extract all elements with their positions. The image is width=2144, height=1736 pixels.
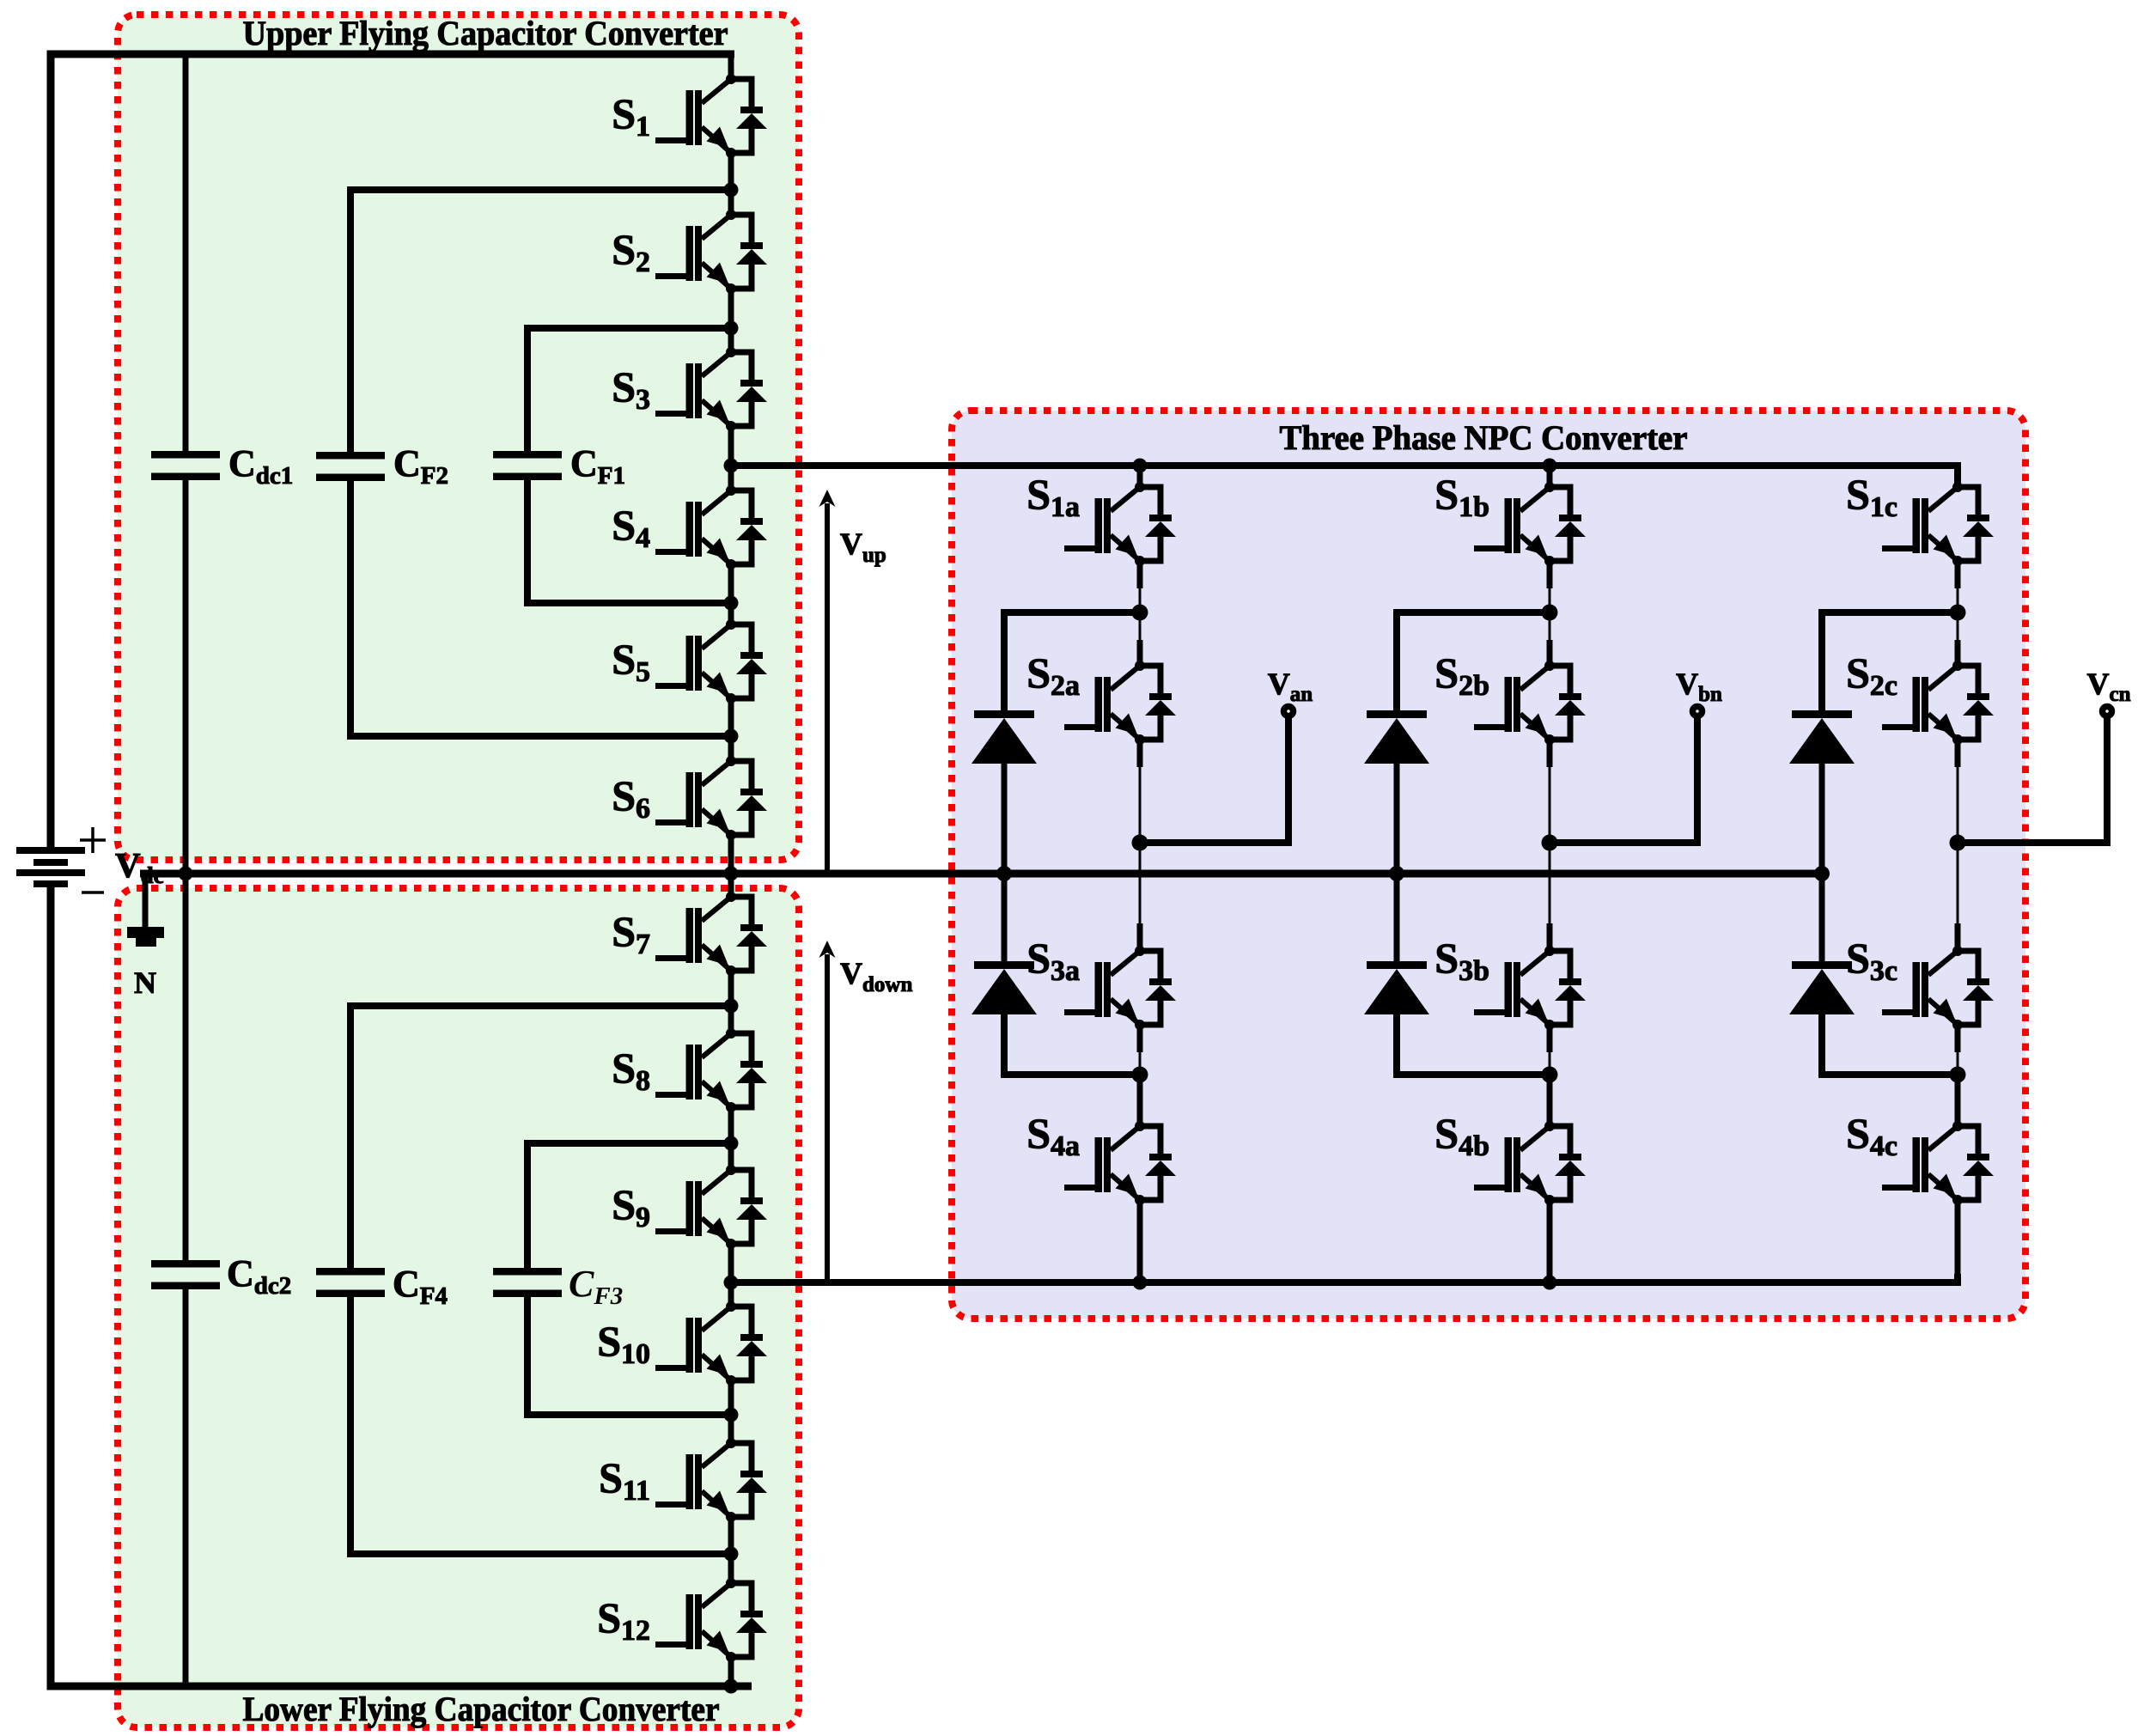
wire clamp mid-to-lower lead leg a — [1002, 874, 1008, 964]
wire stack link S6-S8 — [728, 835, 734, 897]
terminal Vcn — [2103, 707, 2112, 716]
wire stack link S1-S3 — [728, 153, 734, 215]
wire NPC leg b top link — [1547, 466, 1553, 487]
wire stack link S8-S10 — [728, 1107, 734, 1170]
terminal Vbn — [1693, 707, 1702, 716]
transistor S5 (IGBT with antiparallel diode) — [655, 619, 767, 704]
wire NPC leg a clamp-S4 link — [1137, 1075, 1143, 1126]
wire CF2 lower lead and bottom tap — [350, 481, 731, 736]
wire NPC leg a top link — [1137, 466, 1143, 487]
wire CF1 top tap and upper lead — [527, 328, 731, 451]
diode D2a (lower clamp) — [971, 961, 1037, 1014]
node clamp bottom leg b — [1542, 1067, 1558, 1083]
node clamp top leg c — [1950, 605, 1966, 621]
wire CF3 lower lead and bottom tap — [527, 1297, 731, 1415]
wire CF3 top tap and upper lead — [527, 1143, 731, 1268]
wire Cdc column middle lead — [183, 480, 189, 1260]
svg-text:Vup: Vup — [840, 527, 886, 567]
diode D1c (upper clamp) — [1789, 710, 1855, 764]
wire NPC leg c phase-S3 link — [1957, 843, 1959, 923]
node clamp top leg b — [1542, 605, 1558, 621]
wire clamp mid-to-lower lead leg c — [1819, 874, 1825, 964]
node CF3 bottom tap — [724, 1408, 739, 1422]
wire NPC leg c S1-clamp link — [1955, 561, 1961, 588]
transistor S2 (IGBT with antiparallel diode) — [655, 210, 767, 294]
diode D2c (lower clamp) — [1789, 961, 1855, 1014]
wire CF4 lower lead and bottom tap — [350, 1297, 731, 1554]
wire CF2 top tap and upper lead — [350, 190, 731, 452]
transistor S8 (IGBT with antiparallel diode) — [655, 1028, 767, 1112]
node CF4 bottom tap — [724, 1547, 739, 1562]
wire dc mid bus — [140, 870, 1822, 878]
transistor S3a (IGBT with antiparallel diode) — [1064, 946, 1176, 1030]
battery plus sign — [80, 827, 106, 853]
node phase leg b — [1542, 835, 1558, 851]
node CF3 top tap — [724, 1136, 739, 1151]
wire phase output and terminal riser leg a — [1140, 716, 1288, 843]
wire NPC leg c S3-clamp link — [1955, 1025, 1961, 1052]
ground symbol N — [127, 927, 164, 947]
battery minus sign — [82, 891, 104, 894]
region box: Upper Flying Capacitor Converter — [118, 15, 799, 860]
transistor S9 (IGBT with antiparallel diode) — [655, 1165, 767, 1249]
wire NPC leg a S3-clamp link — [1137, 1025, 1143, 1052]
transistor S4c (IGBT with antiparallel diode) — [1882, 1121, 1994, 1205]
node mid bus Cdc column — [179, 867, 193, 881]
diode D2b (lower clamp) — [1364, 961, 1429, 1014]
wire NPC leg b clamp-S2 link — [1549, 612, 1551, 640]
node phase leg c — [1950, 835, 1966, 851]
wire stack link S3-S5 — [728, 426, 734, 490]
wire NPC leg b clamp-S4 link — [1547, 1075, 1553, 1126]
node upper phase tap — [724, 459, 739, 473]
svg-text:Upper Flying Capacitor Convert: Upper Flying Capacitor Converter — [243, 14, 728, 52]
wire Cdc column upper lead — [183, 54, 189, 451]
transistor S1a (IGBT with antiparallel diode) — [1064, 482, 1176, 566]
node CF1 top tap — [724, 321, 739, 336]
capacitor CF3 — [493, 1268, 562, 1297]
terminal Van — [1284, 707, 1294, 716]
node stack mid bus — [724, 867, 739, 881]
wire clamp lower lead and bottom tap leg b — [1397, 1012, 1550, 1075]
wire stack link S2-S4 — [728, 289, 734, 352]
wire clamp upper-to-mid lead leg a — [1002, 761, 1008, 874]
wire stack bottom link — [728, 1657, 734, 1686]
wire NPC leg c S2-phase link — [1955, 740, 1961, 767]
capacitor CF2 — [316, 452, 385, 481]
node mid bus clamp leg c — [1814, 866, 1830, 881]
node lower phase tap — [724, 1276, 739, 1290]
capacitor Cdc2 — [151, 1260, 220, 1289]
battery Vdc cell plate short 2 — [33, 880, 68, 887]
region box: Lower Flying Capacitor Converter — [118, 888, 799, 1727]
wire stack link S9-S11 — [728, 1244, 734, 1307]
wire phase output and terminal riser leg c — [1958, 716, 2107, 843]
diode D1a (upper clamp) — [971, 710, 1037, 764]
transistor S10 (IGBT with antiparallel diode) — [655, 1301, 767, 1386]
capacitor CF4 — [316, 1268, 385, 1297]
svg-text:Three Phase NPC Converter: Three Phase NPC Converter — [1280, 418, 1688, 457]
wire NPC leg a S2-phase link — [1137, 740, 1143, 767]
wire NPC leg a S4-bottom link — [1137, 1200, 1143, 1282]
wire clamp top tap leg b — [1397, 612, 1550, 713]
wire NPC leg c clamp-S4 link — [1955, 1075, 1961, 1126]
transistor S1b (IGBT with antiparallel diode) — [1474, 482, 1586, 566]
battery Vdc cell plate long 2 — [16, 869, 85, 876]
battery Vdc cell plate short 1 — [33, 859, 68, 866]
wire CF1 lower lead and bottom tap — [527, 480, 731, 603]
wire NPC leg a clamp-S2 link — [1139, 612, 1142, 640]
diode D1b (upper clamp) — [1364, 710, 1429, 764]
transistor S6 (IGBT with antiparallel diode) — [655, 756, 767, 840]
node CF2 bottom tap — [724, 729, 739, 744]
transistor S2b (IGBT with antiparallel diode) — [1474, 661, 1586, 745]
transistor S1c (IGBT with antiparallel diode) — [1882, 482, 1994, 566]
transistor S3c (IGBT with antiparallel diode) — [1882, 946, 1994, 1030]
wire stack link S11-S13 — [728, 1517, 734, 1583]
capacitor CF1 — [493, 451, 562, 480]
capacitor Cdc1 — [151, 451, 220, 480]
transistor S4b (IGBT with antiparallel diode) — [1474, 1121, 1586, 1205]
svg-text:N: N — [134, 965, 156, 1000]
wire ground stem — [143, 874, 149, 927]
wire NPC leg b phase-S3 link — [1549, 843, 1551, 923]
wire stack link S4-S6 — [728, 564, 734, 624]
transistor S3b (IGBT with antiparallel diode) — [1474, 946, 1586, 1030]
node bottom bus leg b — [1543, 1276, 1557, 1290]
node stack bottom rail — [724, 1679, 739, 1694]
node mid bus clamp leg a — [996, 866, 1012, 881]
transistor S12 (IGBT with antiparallel diode) — [655, 1578, 767, 1662]
wire battery top lead — [51, 54, 734, 847]
wire NPC leg b S3-clamp link — [1547, 1025, 1553, 1052]
wire NPC leg c top link — [1955, 466, 1961, 487]
transistor S7 (IGBT with antiparallel diode) — [655, 892, 767, 976]
node phase leg a — [1132, 835, 1148, 851]
wire clamp upper-to-mid lead leg b — [1394, 761, 1400, 874]
node CF2 top tap — [724, 183, 739, 198]
node clamp bottom leg a — [1132, 1067, 1148, 1083]
svg-text:Lower Flying Capacitor Convert: Lower Flying Capacitor Converter — [243, 1690, 720, 1728]
wire NPC leg a phase-S3 link — [1139, 843, 1142, 923]
node clamp top leg a — [1132, 605, 1148, 621]
wire lower phase bus — [731, 1274, 1958, 1282]
node CF4 top tap — [724, 999, 739, 1014]
transistor S4a (IGBT with antiparallel diode) — [1064, 1121, 1176, 1205]
wire stack top link — [728, 54, 734, 79]
svg-text:Vdown: Vdown — [840, 956, 912, 996]
transistor S2c (IGBT with antiparallel diode) — [1882, 661, 1994, 745]
wire NPC leg c S4-bottom link — [1955, 1200, 1961, 1282]
svg-text:Vcn: Vcn — [2087, 667, 2131, 706]
wire NPC leg b S4-bottom link — [1547, 1200, 1553, 1282]
transistor S3 (IGBT with antiparallel diode) — [655, 347, 767, 431]
wire NPC leg c clamp-S2 link — [1957, 612, 1959, 640]
node clamp bottom leg c — [1950, 1067, 1966, 1083]
transistor S4 (IGBT with antiparallel diode) — [655, 485, 767, 570]
wire clamp mid-to-lower lead leg b — [1394, 874, 1400, 964]
wire clamp lower lead and bottom tap leg a — [1004, 1012, 1140, 1075]
node bottom bus leg a — [1133, 1276, 1148, 1290]
arrow V_down — [819, 941, 836, 1282]
wire clamp top tap leg a — [1004, 612, 1140, 713]
wire NPC leg b S1-clamp link — [1547, 561, 1553, 588]
wire upper phase bus — [731, 466, 1958, 487]
wire clamp upper-to-mid lead leg c — [1819, 761, 1825, 874]
transistor S1 (IGBT with antiparallel diode) — [655, 74, 767, 158]
battery Vdc cell plate long 1 — [16, 847, 85, 854]
node CF1 bottom tap — [724, 596, 739, 611]
node mid bus clamp leg b — [1389, 866, 1404, 881]
transistor S11 (IGBT with antiparallel diode) — [655, 1438, 767, 1522]
wire Cdc column lower lead — [183, 1289, 189, 1686]
wire phase output and terminal riser leg b — [1550, 716, 1697, 843]
arrow V_up — [819, 490, 836, 874]
node top bus leg a — [1133, 459, 1148, 473]
wire stack link S10-S12 — [728, 1380, 734, 1443]
wire NPC leg b S2-phase link — [1547, 740, 1553, 767]
wire stack link S7-S9 — [728, 971, 734, 1033]
wire CF4 top tap and upper lead — [350, 1006, 731, 1268]
wire battery bottom lead — [51, 886, 752, 1686]
node top bus leg b — [1543, 459, 1557, 473]
wire NPC leg a S1-clamp link — [1137, 561, 1143, 588]
wire clamp lower lead and bottom tap leg c — [1822, 1012, 1958, 1075]
transistor S2a (IGBT with antiparallel diode) — [1064, 661, 1176, 745]
region box: Three Phase NPC Converter — [952, 411, 2025, 1319]
wire clamp top tap leg c — [1822, 612, 1958, 713]
wire stack link S5-S7 — [728, 698, 734, 761]
